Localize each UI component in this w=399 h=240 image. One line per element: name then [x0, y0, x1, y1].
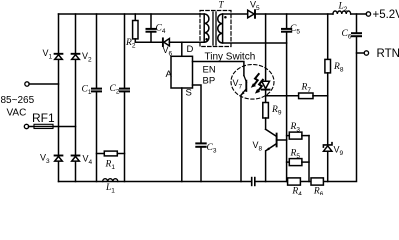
- wire L2 to output terminal: [351, 13, 367, 15]
- svg-text:L1: L1: [105, 183, 115, 195]
- svg-text:BP: BP: [203, 76, 216, 87]
- svg-text:R6: R6: [313, 187, 324, 196]
- svg-text:C2: C2: [110, 84, 120, 96]
- resistor R4: [288, 178, 301, 185]
- capacitor C5: [282, 14, 291, 32]
- inductor L2: [333, 11, 351, 14]
- svg-text:V2: V2: [82, 51, 92, 64]
- svg-text:EN: EN: [203, 65, 216, 76]
- wire C1 column: [96, 14, 98, 182]
- terminal input upper: [25, 82, 29, 86]
- diode V3: [55, 156, 63, 162]
- optocoupler V7 dashed ellipse: [231, 65, 274, 100]
- wire C5 bottom column: [286, 33, 288, 182]
- capacitor C6: [352, 14, 361, 36]
- transformer primary winding: [204, 14, 209, 42]
- wire feedback R7: [266, 95, 299, 97]
- svg-text:D: D: [187, 44, 194, 55]
- wire V8 emitter to rail: [265, 151, 267, 182]
- wire AC input upper: [29, 83, 59, 85]
- svg-text:R1: R1: [105, 160, 116, 172]
- svg-text:C5: C5: [290, 24, 300, 36]
- fuse RF1: [34, 124, 53, 128]
- wire secondary bottom return: [223, 42, 287, 44]
- svg-text:R9: R9: [271, 105, 282, 117]
- svg-text:+5.2V: +5.2V: [373, 9, 399, 21]
- capacitor C2: [120, 89, 129, 92]
- svg-text:85~265: 85~265: [1, 95, 35, 106]
- wire bottom rail right: [256, 37, 357, 182]
- optocoupler V7 phototransistor: [241, 76, 247, 96]
- svg-text:V1: V1: [43, 48, 53, 61]
- transformer secondary winding: [218, 14, 223, 43]
- diode V5: [248, 10, 255, 18]
- optocoupler V7 LED: [262, 81, 270, 89]
- svg-text:C3: C3: [207, 143, 217, 155]
- svg-text:VAC: VAC: [7, 108, 27, 119]
- svg-text:R2: R2: [125, 38, 136, 50]
- wire secondary top to V5: [223, 13, 248, 15]
- svg-text:V7: V7: [233, 78, 243, 91]
- wire output rail: [255, 13, 333, 15]
- svg-text:V9: V9: [334, 145, 344, 158]
- wire C3 to ground rail: [200, 148, 202, 182]
- zener V9: [323, 96, 332, 182]
- wire AC input lower: [29, 126, 76, 128]
- svg-text:V6: V6: [163, 45, 173, 58]
- diode V2: [72, 54, 80, 60]
- svg-text:RTN: RTN: [377, 48, 399, 60]
- resistor R1: [97, 151, 125, 156]
- svg-text:R5: R5: [290, 149, 301, 161]
- wire bottom rail left: [59, 181, 251, 183]
- wire divider column: [308, 136, 310, 182]
- svg-text:R4: R4: [291, 187, 302, 196]
- diode V1: [55, 54, 63, 60]
- svg-text:Tiny Switch: Tiny Switch: [205, 52, 256, 63]
- wire BP pin: [193, 85, 202, 143]
- wire bridge column B: [75, 14, 77, 182]
- capacitor C1: [92, 89, 101, 92]
- resistor R7: [299, 93, 328, 99]
- wire V6 to primary: [169, 41, 204, 43]
- transformer primary polarity dot: [205, 38, 208, 41]
- wire LED column from rail: [265, 14, 267, 81]
- optocoupler light arrow 1: [251, 74, 259, 88]
- diode V6: [163, 38, 170, 46]
- svg-text:V8: V8: [253, 140, 263, 153]
- capacitor Y-cap: [252, 178, 255, 186]
- wire LED cathode node: [265, 90, 267, 103]
- optocoupler light arrow 2: [255, 80, 263, 94]
- svg-text:T: T: [219, 0, 225, 9]
- svg-text:V3: V3: [40, 153, 50, 166]
- svg-text:R8: R8: [333, 62, 344, 74]
- transformer secondary polarity dot: [224, 16, 227, 19]
- diode V4: [72, 156, 80, 162]
- wire clamp node: [135, 41, 162, 43]
- inductor L1: [103, 179, 118, 182]
- capacitor C4: [147, 14, 156, 42]
- terminal RTN: [364, 51, 368, 55]
- wire bridge column A: [58, 14, 60, 182]
- terminal input lower: [24, 124, 28, 128]
- svg-text:R3: R3: [290, 122, 301, 134]
- transformer core: [213, 12, 216, 45]
- svg-text:R7: R7: [301, 83, 312, 95]
- wire S pin: [181, 88, 183, 182]
- svg-text:L2: L2: [338, 2, 348, 14]
- resistor R9: [263, 103, 269, 130]
- wire RTN: [357, 52, 365, 54]
- resistor R2: [133, 14, 138, 42]
- wire top DC rail: [59, 13, 205, 15]
- resistor R6: [311, 178, 323, 185]
- svg-text:C4: C4: [156, 23, 166, 35]
- op-amp U1 TinySwitch body: [171, 56, 193, 88]
- svg-text:A: A: [166, 69, 173, 80]
- resistor R3: [287, 132, 309, 139]
- capacitor C3: [196, 143, 205, 146]
- transformer T dashed box: [200, 11, 231, 47]
- wire D pin: [181, 42, 183, 56]
- svg-text:RF1: RF1: [32, 111, 55, 125]
- svg-text:V4: V4: [83, 154, 93, 167]
- svg-text:S: S: [186, 88, 192, 99]
- svg-text:C6: C6: [342, 29, 352, 41]
- terminal +5.2V: [366, 12, 370, 16]
- wire phototransistor emitter to ground: [240, 96, 242, 182]
- transistor V8: [266, 129, 287, 151]
- svg-text:C1: C1: [82, 85, 92, 97]
- resistor R8: [325, 14, 331, 96]
- wire EN pin: [193, 62, 244, 76]
- wire C2 column: [124, 14, 126, 182]
- resistor R5: [287, 159, 309, 166]
